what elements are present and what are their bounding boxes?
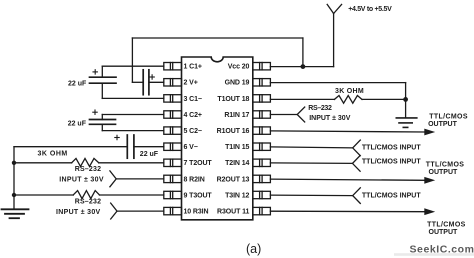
junction GND T1OUT [403,97,408,102]
pin 9 box [164,191,182,198]
svg-text:TTL/CMOS: TTL/CMOS [427,222,466,229]
svg-text:22 uF: 22 uF [140,151,159,158]
capacitor C2 22uF top lead [101,115,103,120]
wire pin8 R2IN [116,178,164,180]
svg-text:9 T3OUT: 9 T3OUT [184,192,213,199]
arrow RS-232 input pin10 [111,203,117,219]
pin 15 box [253,143,271,150]
pin 18 box [253,95,271,102]
svg-text:T1OUT 18: T1OUT 18 [217,96,249,103]
arrow RS-232 input pin8 [110,171,116,187]
arrow TTL output pin11 [424,208,435,215]
svg-text:8 R2IN: 8 R2IN [184,176,205,183]
wire pin15 T1IN [270,147,352,148]
wire pin14 T2IN [270,162,352,165]
svg-text:3 C1−: 3 C1− [184,96,202,103]
junction Vcc node [301,64,306,69]
pin 12 box [253,191,271,198]
svg-text:INPUT ± 30V: INPUT ± 30V [309,115,351,122]
wire pin4 C2+ [102,114,164,116]
capacitor C4 plus sign [115,135,119,139]
wire pin19 GND [270,82,405,84]
supply arrow +4.5V [327,4,341,13]
wire R2 to pin7 [99,162,164,164]
pin 2 box [164,79,182,86]
wire C3 to riser [132,81,143,83]
pin 20 box [253,63,271,70]
wire pin20 Vcc [270,66,333,68]
svg-text:R3OUT 11: R3OUT 11 [217,209,249,216]
wire pin3 C1- [102,97,164,99]
wire C4 to left rail [14,146,127,148]
svg-text:SeekIC.com: SeekIC.com [410,243,474,255]
pin 4 box [164,111,182,118]
svg-text:TTL/CMOS INPUT: TTL/CMOS INPUT [362,158,421,165]
svg-text:TTL/CMOS: TTL/CMOS [426,162,465,169]
junction pin7 rail [12,161,16,165]
svg-text:TTL/CMOS: TTL/CMOS [429,114,468,121]
ground left [2,209,29,218]
wire pin5 C2- [102,130,164,132]
svg-text:22 uF: 22 uF [68,120,87,127]
arrow TTL output pin13 [424,177,435,184]
svg-text:INPUT ± 30V: INPUT ± 30V [59,177,104,184]
arrow TTL input pin12 [353,188,361,204]
svg-text:22 uF: 22 uF [68,81,87,88]
svg-text:INPUT ± 30V: INPUT ± 30V [56,209,101,216]
pin 16 box [253,127,271,134]
pin 10 box [164,207,182,214]
svg-text:TTL/CMOS INPUT: TTL/CMOS INPUT [362,145,421,152]
svg-text:4 C2+: 4 C2+ [184,112,202,119]
wire supply riser [333,14,335,67]
arrow TTL input pin15 [353,140,361,156]
wire pin1 C1+ [102,65,164,67]
pin 6 box [164,143,182,150]
svg-text:OUTPUT: OUTPUT [429,169,459,176]
resistor R1 3K OHM [334,96,362,104]
svg-text:+4.5V to +5.5V: +4.5V to +5.5V [348,6,392,13]
svg-text:(a): (a) [246,242,261,256]
capacitor C2 plus sign [93,110,97,114]
svg-text:GND 19: GND 19 [225,80,250,87]
capacitor C2 bottom lead [101,124,103,130]
wire pin10 R3IN [117,210,164,212]
svg-text:T2IN 14: T2IN 14 [225,160,249,167]
capacitor C1 plates [90,77,117,83]
wire pin12 T3IN [270,194,352,197]
svg-text:1 C1+: 1 C1+ [184,64,202,71]
svg-text:OUTPUT: OUTPUT [429,229,459,236]
capacitor C3 V+ plates [143,70,149,95]
pin 1 box [164,63,182,70]
wire top rail [132,37,303,39]
scan shadow under watermark [394,253,474,256]
resistor R3 3K OHM [73,191,99,199]
svg-text:6 V−: 6 V− [184,144,198,151]
pin 17 box [253,111,271,118]
pin 8 box [164,175,182,182]
pin 3 box [164,95,182,102]
capacitor C4 V- plates [127,135,134,158]
svg-text:2 V+: 2 V+ [184,80,198,87]
svg-text:R1IN 17: R1IN 17 [224,112,249,119]
svg-text:RS–232: RS–232 [308,105,332,112]
wire pin17 R1IN [270,114,297,116]
svg-text:TTL/CMOS INPUT: TTL/CMOS INPUT [362,192,421,199]
wire pin6 V- [134,146,164,148]
capacitor C2 plates [90,120,116,125]
capacitor C1 bottom lead [101,83,103,98]
wire left ground rail [13,147,15,210]
resistor R2 3K OHM [72,158,99,166]
pin 13 box [253,175,271,182]
wire R1 to junction [362,98,406,100]
svg-text:R1OUT 16: R1OUT 16 [217,128,250,135]
svg-text:5 C2−: 5 C2− [184,128,202,135]
wire riser left to top rail [131,38,133,82]
pin 14 box [253,159,271,166]
svg-text:10 R3IN: 10 R3IN [184,209,209,216]
svg-text:3K OHM: 3K OHM [335,88,364,95]
svg-text:T3IN 12: T3IN 12 [225,192,249,199]
wire R3 to pin9 [100,194,164,196]
svg-text:Vcc 20: Vcc 20 [228,64,250,71]
ground right [396,118,417,128]
wire pin7 T2OUT left [14,162,72,164]
IC U1 body [182,57,253,220]
wire pin18 T1OUT [270,98,334,100]
svg-text:RS–232: RS–232 [75,198,102,205]
svg-text:RS–232: RS–232 [75,166,102,173]
arrow TTL output pin16 [424,129,435,136]
wire pin9 T3OUT left [14,194,73,196]
pin 19 box [253,79,271,86]
svg-text:OUTPUT: OUTPUT [428,121,458,128]
capacitor C1 22uF top lead [101,66,103,77]
pin 7 box [164,159,182,166]
svg-text:T1IN 15: T1IN 15 [225,144,249,151]
svg-text:R2OUT 13: R2OUT 13 [217,176,250,183]
wire pin11 R3OUT [270,210,425,213]
arrow RS-232 input pin17 [297,107,305,122]
svg-text:7 T2OUT: 7 T2OUT [184,160,213,167]
wire pin16 R1OUT [270,131,425,132]
wire top rail drop to Vcc [302,38,304,67]
capacitor C1 plus sign [93,70,97,74]
pin 5 box [164,127,182,134]
arrow TTL input pin14 [353,156,361,172]
wire GND drop [405,83,407,117]
junction pin9 rail [12,193,16,197]
wire pin13 R2OUT [270,179,425,180]
wire pin2 V+ [149,81,164,83]
pin 11 box [253,207,271,214]
svg-text:3K OHM: 3K OHM [38,150,68,157]
capacitor C3 plus sign [150,75,154,79]
